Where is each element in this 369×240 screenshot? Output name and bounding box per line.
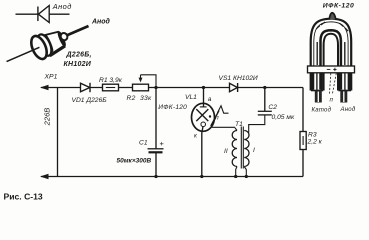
svg-text:Анод: Анод: [91, 18, 111, 26]
node junction top (R2/C1): [154, 86, 157, 89]
flash lamp VL1: [192, 103, 215, 131]
svg-text:I: I: [253, 147, 255, 154]
resistor R3: [300, 132, 306, 150]
resistor R2 (variable): [133, 75, 149, 91]
diode Д226Б package drawing: [2, 15, 94, 73]
node junction bottom (lamp cathode): [200, 175, 203, 178]
svg-text:Катод: Катод: [312, 108, 332, 114]
svg-text:ХР1: ХР1: [44, 74, 58, 81]
wire R2 wiper bypass: [141, 75, 157, 88]
svg-text:Анод: Анод: [340, 107, 356, 113]
svg-text:+: +: [160, 139, 165, 148]
plus mark in band: [333, 68, 336, 71]
node junction bottom (winding II): [234, 175, 237, 178]
svg-text:VS1 КН102И: VS1 КН102И: [219, 75, 258, 82]
lamp pins: [315, 91, 322, 103]
wire T1 winding II to bottom rail: [235, 128, 237, 177]
svg-text:Т1: Т1: [235, 121, 243, 128]
node junction top (C2): [263, 86, 266, 89]
wire C2 lower lead to winding I: [249, 115, 265, 133]
svg-text:Анод: Анод: [52, 2, 72, 11]
label R3 2,2к: [307, 132, 323, 146]
bottom rail left arrow: [40, 174, 49, 179]
trigger spark mark: [218, 106, 229, 113]
top rail left arrow: [40, 85, 49, 90]
svg-text:0,05 мк: 0,05 мк: [272, 114, 295, 121]
node junction top (lamp anode): [202, 86, 205, 89]
thyristor VS1: [230, 83, 238, 92]
svg-text:п: п: [215, 114, 219, 121]
svg-text:ИФК-120: ИФК-120: [158, 104, 187, 111]
lamp base dark sections below band: [312, 73, 349, 90]
right rail wire lower: [302, 150, 304, 177]
svg-text:КН102И: КН102И: [64, 61, 92, 68]
svg-text:VL1: VL1: [185, 94, 197, 101]
svg-text:Д226Б,: Д226Б,: [66, 52, 92, 59]
lamp base ledges: [311, 90, 323, 92]
label Д226Б, КН102И (package types): [64, 52, 92, 69]
svg-text:С1: С1: [139, 140, 148, 147]
svg-text:R3: R3: [308, 132, 317, 139]
svg-text:R1 3,9к: R1 3,9к: [99, 77, 123, 84]
wire trigger to T1: [212, 126, 235, 128]
svg-text:С2: С2: [268, 104, 277, 111]
svg-text:п: п: [330, 97, 334, 104]
svg-text:226В: 226В: [42, 108, 51, 127]
right rail wire upper: [302, 88, 304, 132]
svg-text:II: II: [224, 148, 228, 155]
svg-text:2,2 к: 2,2 к: [307, 139, 323, 146]
top rail wire: [41, 87, 303, 89]
wire C1 branch lower: [155, 152, 157, 176]
bottom rail wire: [41, 176, 303, 178]
capacitor C2: [258, 111, 272, 115]
capacitor C1: [148, 149, 164, 153]
left rail wire: [57, 88, 59, 177]
wire lamp anode lead: [203, 88, 205, 108]
minus mark in band: [327, 68, 331, 70]
glass wall lines: [314, 22, 348, 90]
diode VD1: [81, 83, 91, 92]
wire T1 winding I to bottom rail: [244, 167, 246, 177]
transformer T1: [232, 127, 249, 169]
svg-text:50мк×300В: 50мк×300В: [117, 158, 152, 165]
node junction bottom (winding I): [245, 175, 248, 178]
node junction bottom (C1): [154, 175, 157, 178]
svg-text:VD1 Д226Б: VD1 Д226Б: [72, 97, 108, 104]
diode symbol (top-left illustration): [16, 6, 70, 23]
flash lamp ИФК-120 illustration: [308, 13, 355, 103]
lamp inner bore: [324, 34, 338, 91]
lamp trigger electrode: [211, 111, 219, 127]
wire C1 branch upper: [155, 88, 157, 149]
dashed leader lines to trigger label: [329, 73, 336, 94]
resistor R1: [103, 84, 119, 91]
svg-text:R2 33к: R2 33к: [127, 95, 153, 102]
lamp outer envelope: [311, 19, 352, 91]
lamp tip nipple: [329, 13, 336, 20]
trigger band: [308, 66, 355, 73]
wire lamp cathode lead: [202, 127, 203, 177]
svg-text:а: а: [208, 96, 212, 103]
svg-text:ИФК-120: ИФК-120: [323, 3, 354, 10]
wire C2 upper lead: [264, 88, 266, 112]
svg-text:Рис. С-13: Рис. С-13: [4, 192, 43, 202]
